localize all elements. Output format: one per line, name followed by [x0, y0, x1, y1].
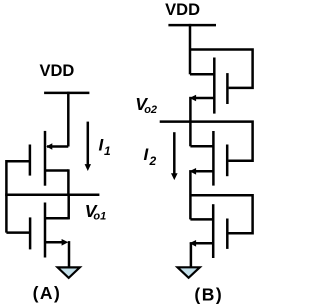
- svg-text:2: 2: [149, 154, 157, 168]
- svg-text:1: 1: [104, 144, 111, 158]
- svg-text:o2: o2: [144, 104, 157, 116]
- svg-text:VDD: VDD: [165, 1, 200, 19]
- svg-text:(B): (B): [194, 284, 223, 304]
- svg-text:(A): (A): [33, 283, 62, 303]
- svg-text:VDD: VDD: [39, 62, 74, 80]
- svg-text:o1: o1: [93, 211, 106, 223]
